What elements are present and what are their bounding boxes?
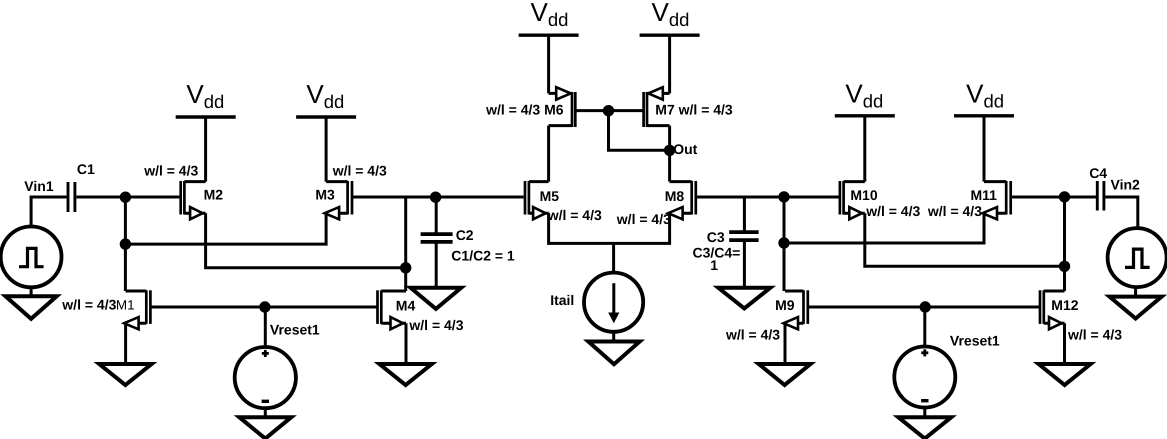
transistor M1 — [124, 290, 150, 329]
wire Vdd stem to M7 source — [668, 35, 671, 93]
svg-text:M11: M11 — [971, 187, 998, 203]
svg-text:w/l = 4/3: w/l = 4/3 — [1067, 327, 1122, 343]
wire M4 source to ground — [405, 323, 408, 364]
svg-text:M10: M10 — [850, 187, 877, 203]
node M6/M7 gate junction — [603, 105, 614, 116]
svg-text:w/l = 4/3: w/l = 4/3 — [61, 297, 116, 313]
power Vdd (M11) — [954, 79, 1014, 116]
transistor M6 — [549, 87, 576, 127]
wire Vdd stem to M2 drain — [204, 117, 207, 182]
svg-text:M9: M9 — [775, 297, 795, 313]
svg-text:C1/C2 = 1: C1/C2 = 1 — [451, 248, 515, 264]
ground (voltage source Vreset1 (right)) — [898, 417, 951, 438]
wire C1 to M2 gate (node A) — [76, 196, 179, 199]
node A2 junction (M10 source) — [1059, 261, 1070, 272]
transistor M11 — [983, 181, 1011, 219]
node B junction (M2 source) — [400, 262, 411, 273]
wire node A vertical to M1 drain — [124, 197, 127, 291]
power Vdd (M7) — [640, 0, 700, 35]
svg-text:Out: Out — [673, 141, 697, 157]
wire node B2 to M11 source (cross-couple) — [784, 213, 984, 243]
svg-text:Vdd: Vdd — [652, 0, 690, 30]
transistor M3 — [325, 181, 352, 219]
svg-text:C4: C4 — [1089, 165, 1107, 181]
svg-text:M8: M8 — [665, 188, 685, 204]
node A junction (main wire) — [120, 192, 131, 203]
current source Itail — [584, 273, 643, 332]
svg-text:M12: M12 — [1051, 297, 1078, 313]
wire Vdd stem to M10 drain — [863, 116, 866, 182]
svg-text:Vreset1: Vreset1 — [950, 333, 1000, 349]
voltage source Vreset1 (left) — [235, 347, 296, 408]
ground (M9) — [759, 364, 811, 385]
svg-text:M5: M5 — [540, 188, 560, 204]
power Vdd (M3) — [296, 79, 356, 117]
node A2 junction (main wire) — [1059, 191, 1070, 202]
svg-text:Vdd: Vdd — [306, 79, 344, 112]
ground (M4) — [379, 364, 431, 385]
wire voltage source Vreset1 (left) to ground — [264, 408, 267, 417]
wire Vreset1 node to voltage source Vreset1 (right) — [923, 307, 926, 347]
transistor M4 — [378, 290, 407, 329]
ground (M12) — [1039, 364, 1091, 385]
wire M12 source to ground — [1063, 323, 1066, 364]
transistor M2 — [181, 181, 206, 219]
wire M7 drain through Out to M8 drain — [668, 126, 671, 182]
wire node A to M3 source (cross-couple) — [125, 213, 326, 244]
svg-text:Vdd: Vdd — [186, 79, 224, 112]
svg-text:1: 1 — [710, 257, 718, 273]
svg-text:w/l = 4/3: w/l = 4/3 — [408, 317, 463, 333]
wire gate node down to Out — [609, 111, 670, 151]
svg-text:w/l = 4/3: w/l = 4/3 — [143, 162, 198, 178]
wire Vreset1 node to voltage source Vreset1 (left) — [264, 307, 267, 347]
ground (C3) — [718, 288, 770, 309]
svg-text:w/l = 4/3: w/l = 4/3 — [725, 326, 780, 342]
transistor M5 — [525, 181, 549, 219]
node A junction (cross wire) — [120, 238, 131, 249]
svg-text:Vin1: Vin1 — [24, 178, 54, 194]
node B2 junction (main wire right) — [778, 191, 789, 202]
wire Vdd stem to M11 drain — [983, 116, 986, 182]
wire M8 gate to C3 to M10 gate — [697, 196, 840, 199]
node Vreset1 right junction — [920, 301, 931, 312]
wire Vreset1 line M9 gate to M12 gate — [808, 306, 1040, 309]
transistor M9 — [784, 290, 808, 329]
wire M3 gate to C2 to M5 gate (node B net) — [352, 196, 524, 199]
wire voltage source Vreset1 (right) to ground — [923, 408, 926, 418]
ground (C2) — [411, 288, 462, 309]
svg-text:w/l = 4/3: w/l = 4/3 — [865, 203, 920, 219]
svg-text:M1: M1 — [116, 298, 135, 313]
wire M6 drain to M5 drain — [547, 126, 550, 182]
voltage source Vin1 — [1, 227, 62, 288]
svg-text:w/l = 4/3: w/l = 4/3 — [332, 162, 387, 178]
capacitor C4 — [1097, 181, 1104, 211]
svg-text:w/l = 4/3: w/l = 4/3 — [616, 211, 671, 227]
svg-text:w/l = 4/3: w/l = 4/3 — [547, 207, 602, 223]
transistor M8 — [668, 181, 696, 219]
voltage source Vreset1 (right) — [894, 347, 955, 408]
wire Vin1 to C1 — [31, 197, 67, 227]
svg-text:M2: M2 — [204, 187, 224, 203]
svg-text:w/l = 4/3 M6: w/l = 4/3 M6 — [485, 102, 564, 118]
svg-text:Vin2: Vin2 — [1111, 177, 1141, 193]
wire M2 source down and right to node B — [206, 213, 406, 268]
power Vdd (M2) — [176, 79, 236, 117]
wire M6 gate to M7 gate — [575, 109, 643, 112]
svg-text:Vdd: Vdd — [845, 79, 883, 112]
svg-text:C2: C2 — [456, 227, 474, 243]
transistor M7 — [644, 87, 670, 127]
ground (voltage source Vreset1 (left)) — [239, 417, 291, 438]
ground (voltage source Vin2) — [1110, 297, 1162, 319]
wire Vreset1 line M1 gate to M4 gate — [150, 306, 377, 309]
node C2 junction — [430, 192, 441, 203]
svg-text:Vreset1: Vreset1 — [270, 322, 320, 338]
node B2 cross junction — [778, 237, 789, 248]
node Out — [664, 145, 675, 156]
capacitor C2 — [421, 197, 453, 288]
svg-text:w/l = 4/3: w/l = 4/3 — [927, 203, 982, 219]
svg-text:C1: C1 — [77, 161, 95, 177]
svg-text:Vdd: Vdd — [531, 0, 569, 30]
wire Vdd stem to M3 drain — [325, 117, 328, 182]
svg-text:M3: M3 — [315, 187, 335, 203]
power Vdd (M6) — [519, 0, 579, 35]
svg-text:Vdd: Vdd — [966, 79, 1004, 112]
ground (M1) — [99, 364, 151, 385]
wire tail to Itail — [612, 243, 615, 272]
svg-text:M4: M4 — [396, 298, 416, 314]
transistor M12 — [1040, 290, 1065, 329]
wire M11 gate to C4 (node A2) — [1012, 196, 1096, 199]
capacitor C3 — [729, 197, 758, 287]
svg-text:C3: C3 — [707, 229, 725, 245]
wire M10 source down and right to node A2 — [865, 213, 1065, 266]
wire node A2 vertical to M12 drain — [1063, 197, 1066, 291]
ground (Itail) — [588, 342, 639, 365]
svg-text:Itail: Itail — [550, 292, 574, 308]
wire voltage source Vin1 to ground — [30, 287, 33, 296]
wire Itail to ground — [612, 332, 615, 342]
power Vdd (M10) — [835, 79, 895, 116]
wire M1 source to ground — [124, 323, 127, 364]
wire M9 source to ground — [784, 323, 787, 364]
wire tail node M5/M8 sources — [549, 213, 670, 243]
voltage source Vin2 — [1108, 228, 1167, 287]
wire node B vertical to M4 drain — [404, 197, 407, 291]
svg-text:M7 w/l = 4/3: M7 w/l = 4/3 — [655, 102, 733, 118]
wire node B2 vertical to M9 drain — [783, 197, 786, 291]
node Vreset1 left junction — [259, 301, 270, 312]
ground (voltage source Vin1) — [6, 296, 57, 319]
wire C4 to Vin2 — [1105, 197, 1138, 228]
transistor M10 — [840, 181, 865, 219]
capacitor C1 — [68, 182, 75, 212]
wire voltage source Vin2 to ground — [1134, 287, 1137, 297]
wire Vdd stem to M6 source — [547, 35, 550, 93]
